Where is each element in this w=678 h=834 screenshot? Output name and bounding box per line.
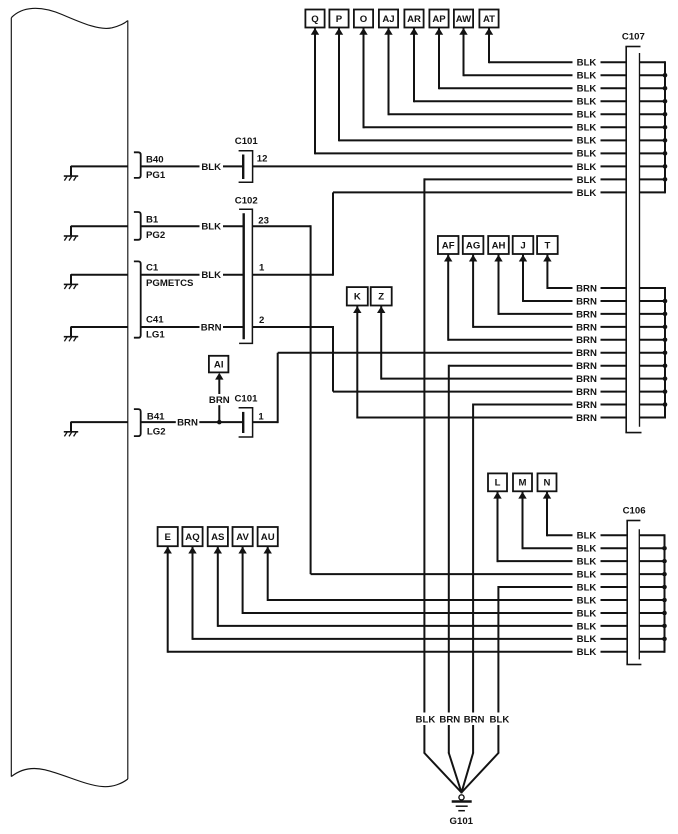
svg-text:LG1: LG1 bbox=[146, 330, 165, 341]
svg-text:BRN: BRN bbox=[576, 374, 597, 385]
svg-text:G101: G101 bbox=[450, 816, 474, 827]
svg-text:BRN: BRN bbox=[464, 715, 485, 726]
svg-text:C101: C101 bbox=[235, 393, 259, 404]
svg-text:BLK: BLK bbox=[577, 557, 597, 568]
svg-text:BLK: BLK bbox=[577, 175, 597, 186]
svg-text:B41: B41 bbox=[147, 412, 165, 423]
svg-text:AQ: AQ bbox=[185, 532, 200, 543]
svg-text:AH: AH bbox=[492, 240, 506, 251]
svg-text:BLK: BLK bbox=[490, 715, 510, 726]
svg-text:AF: AF bbox=[442, 240, 455, 251]
svg-text:BRN: BRN bbox=[177, 418, 198, 429]
svg-text:AJ: AJ bbox=[382, 14, 394, 25]
svg-text:BLK: BLK bbox=[577, 544, 597, 555]
svg-text:BRN: BRN bbox=[439, 715, 460, 726]
svg-text:BLK: BLK bbox=[577, 84, 597, 95]
svg-text:L: L bbox=[495, 478, 501, 489]
svg-text:12: 12 bbox=[257, 153, 268, 164]
svg-text:PGMETCS: PGMETCS bbox=[146, 278, 194, 289]
svg-text:B1: B1 bbox=[146, 214, 159, 225]
svg-text:BRN: BRN bbox=[576, 361, 597, 372]
svg-text:AV: AV bbox=[236, 532, 249, 543]
svg-text:BLK: BLK bbox=[577, 634, 597, 645]
svg-text:C101: C101 bbox=[235, 136, 259, 147]
svg-text:BLK: BLK bbox=[577, 58, 597, 69]
svg-text:BRN: BRN bbox=[576, 322, 597, 333]
svg-text:BLK: BLK bbox=[201, 222, 221, 233]
svg-text:1: 1 bbox=[259, 263, 265, 274]
svg-text:BLK: BLK bbox=[577, 110, 597, 121]
svg-text:BRN: BRN bbox=[576, 413, 597, 424]
svg-text:K: K bbox=[354, 292, 361, 303]
svg-text:BLK: BLK bbox=[577, 188, 597, 199]
svg-text:BLK: BLK bbox=[577, 621, 597, 632]
svg-text:J: J bbox=[520, 240, 525, 251]
svg-text:1: 1 bbox=[258, 412, 264, 423]
svg-text:23: 23 bbox=[258, 215, 269, 226]
svg-text:BRN: BRN bbox=[201, 322, 222, 333]
svg-text:B40: B40 bbox=[146, 154, 164, 165]
svg-text:AT: AT bbox=[483, 14, 495, 25]
svg-text:BRN: BRN bbox=[576, 387, 597, 398]
svg-text:BLK: BLK bbox=[577, 136, 597, 147]
svg-text:LG2: LG2 bbox=[147, 427, 166, 438]
svg-text:BLK: BLK bbox=[577, 647, 597, 658]
svg-text:BRN: BRN bbox=[576, 335, 597, 346]
svg-text:BRN: BRN bbox=[576, 296, 597, 307]
svg-text:M: M bbox=[519, 478, 527, 489]
svg-text:C102: C102 bbox=[235, 195, 258, 206]
svg-text:C41: C41 bbox=[146, 315, 164, 326]
svg-text:AP: AP bbox=[432, 14, 446, 25]
svg-text:BLK: BLK bbox=[577, 582, 597, 593]
svg-text:BLK: BLK bbox=[577, 123, 597, 134]
svg-text:Z: Z bbox=[378, 292, 384, 303]
svg-text:BRN: BRN bbox=[576, 348, 597, 359]
svg-text:BLK: BLK bbox=[577, 608, 597, 619]
svg-text:AG: AG bbox=[466, 240, 480, 251]
svg-text:BLK: BLK bbox=[577, 97, 597, 108]
svg-text:C1: C1 bbox=[146, 263, 159, 274]
svg-text:BLK: BLK bbox=[577, 162, 597, 173]
svg-text:AR: AR bbox=[407, 14, 421, 25]
svg-text:AS: AS bbox=[211, 532, 225, 543]
svg-text:BRN: BRN bbox=[576, 400, 597, 411]
svg-text:BLK: BLK bbox=[577, 595, 597, 606]
svg-text:AW: AW bbox=[456, 14, 472, 25]
svg-text:PG1: PG1 bbox=[146, 170, 166, 181]
svg-text:AU: AU bbox=[261, 532, 275, 543]
svg-text:BLK: BLK bbox=[201, 162, 221, 173]
svg-text:BLK: BLK bbox=[416, 715, 436, 726]
svg-text:BLK: BLK bbox=[577, 149, 597, 160]
svg-text:PG2: PG2 bbox=[146, 230, 165, 241]
svg-text:E: E bbox=[164, 532, 171, 543]
svg-text:2: 2 bbox=[259, 315, 264, 326]
svg-text:BLK: BLK bbox=[577, 71, 597, 82]
svg-text:O: O bbox=[360, 14, 368, 25]
svg-text:Q: Q bbox=[311, 14, 319, 25]
svg-text:AI: AI bbox=[214, 359, 224, 370]
svg-text:T: T bbox=[544, 240, 550, 251]
svg-text:C107: C107 bbox=[622, 31, 645, 42]
svg-text:N: N bbox=[544, 478, 551, 489]
svg-text:BRN: BRN bbox=[209, 395, 230, 406]
svg-text:BLK: BLK bbox=[577, 570, 597, 581]
svg-text:BLK: BLK bbox=[577, 531, 597, 542]
svg-text:BRN: BRN bbox=[576, 309, 597, 320]
svg-text:C106: C106 bbox=[623, 506, 646, 517]
svg-text:BRN: BRN bbox=[576, 283, 597, 294]
svg-text:P: P bbox=[336, 14, 343, 25]
svg-text:BLK: BLK bbox=[201, 270, 221, 281]
